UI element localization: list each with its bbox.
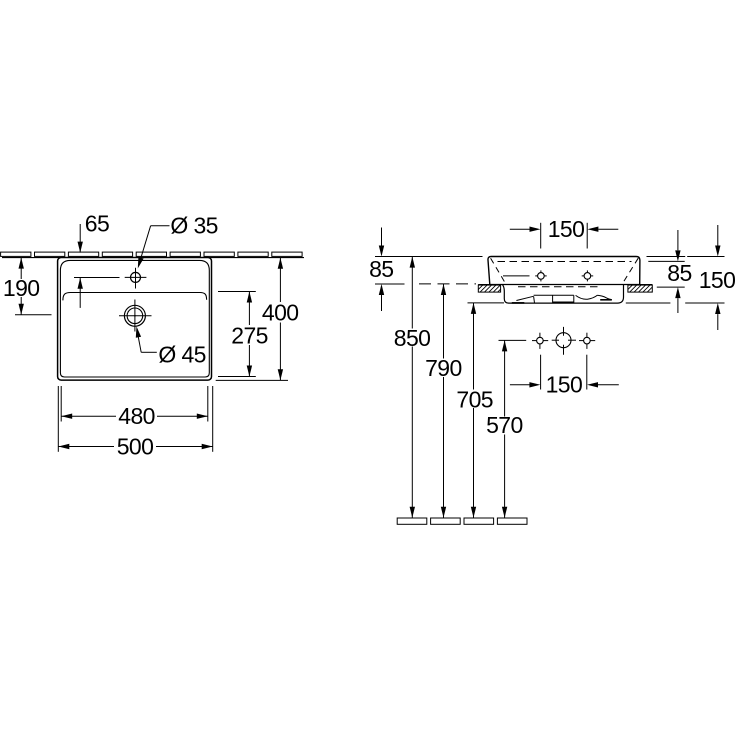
leader Ø 35 (151, 225, 170, 227)
dimension 150 bottom (540, 355, 542, 390)
drain hole centre (rear view) (556, 333, 571, 348)
rear rim reference line right (side view) (648, 260, 684, 262)
floor tile band (side view) (397, 518, 427, 524)
dimension 85 right (677, 230, 679, 250)
fixing hole left (side view) (538, 273, 545, 280)
dimension 705 (468, 302, 505, 304)
svg-text:705: 705 (456, 386, 493, 412)
dimension 500 (57, 386, 59, 452)
dimension 480 (60, 386, 62, 422)
svg-text:Ø 35: Ø 35 (170, 212, 217, 238)
dimension 150 right (717, 225, 719, 246)
dimension 275 (248, 292, 250, 326)
basin bottom edge at wall (side view) (490, 284, 640, 286)
underside hidden line (dashed) (518, 286, 599, 288)
wall line (front view) (2, 257, 304, 259)
dimension 400 (279, 258, 281, 302)
hidden rim line (dashed, side view) (498, 261, 632, 263)
wall hatch right (side view) (621, 285, 659, 292)
svg-text:275: 275 (231, 322, 268, 348)
svg-text:Ø 45: Ø 45 (158, 341, 205, 367)
washbasin outer contour (front view) (58, 258, 212, 381)
dimension 850 (410, 257, 415, 268)
drain boss line right (600, 299, 612, 301)
leader Ø 45 (138, 337, 141, 353)
dimension 190 (20, 258, 22, 279)
svg-text:500: 500 (117, 433, 154, 459)
underside inner profile (side view) (516, 295, 611, 303)
basin top reference line right (side view) (647, 256, 686, 258)
fixing hole right (side view) (584, 273, 591, 280)
inner bowl edge (front view) (63, 293, 207, 301)
washbasin inner rim (front view) (60, 260, 209, 377)
drain hole Ø45 (front view) (124, 305, 145, 326)
svg-text:150: 150 (548, 216, 585, 242)
svg-text:850: 850 (394, 325, 431, 351)
wall tile band (front view) (1, 252, 31, 256)
svg-text:790: 790 (425, 355, 462, 381)
fixing hole level line (side view) (503, 275, 530, 277)
underside outline (side view) (502, 285, 623, 304)
tap hole pattern small left (rear view) (537, 337, 544, 344)
hidden right edge (dashed, side view) (623, 258, 639, 283)
svg-text:480: 480 (118, 403, 155, 429)
wall line right (side view) (626, 284, 653, 286)
dimension 85 left (381, 228, 383, 246)
svg-text:85: 85 (667, 260, 691, 286)
dimension 150 top (540, 223, 542, 249)
svg-text:65: 65 (85, 211, 109, 237)
basin top reference line left (side view) (375, 256, 483, 258)
washbasin outline (side view) (488, 257, 640, 285)
svg-text:190: 190 (3, 275, 40, 301)
svg-text:85: 85 (369, 256, 393, 282)
svg-text:150: 150 (699, 267, 735, 293)
svg-text:570: 570 (486, 412, 523, 438)
hidden left edge (dashed, side view) (491, 258, 505, 282)
dimension 790 (441, 284, 446, 295)
hidden wall line (dashed, side view) (419, 283, 476, 285)
tap hole Ø35 (front view) (131, 272, 141, 282)
drain boss line left (512, 302, 525, 304)
wall hatch left (side view) (471, 285, 504, 292)
tap hole centre line extension (74, 277, 120, 279)
dimension 570 (499, 339, 527, 341)
wall line left (side view) (478, 284, 502, 286)
dimension 65 (79, 224, 81, 253)
tap hole pattern small right (rear view) (584, 337, 591, 344)
svg-text:150: 150 (546, 372, 583, 398)
